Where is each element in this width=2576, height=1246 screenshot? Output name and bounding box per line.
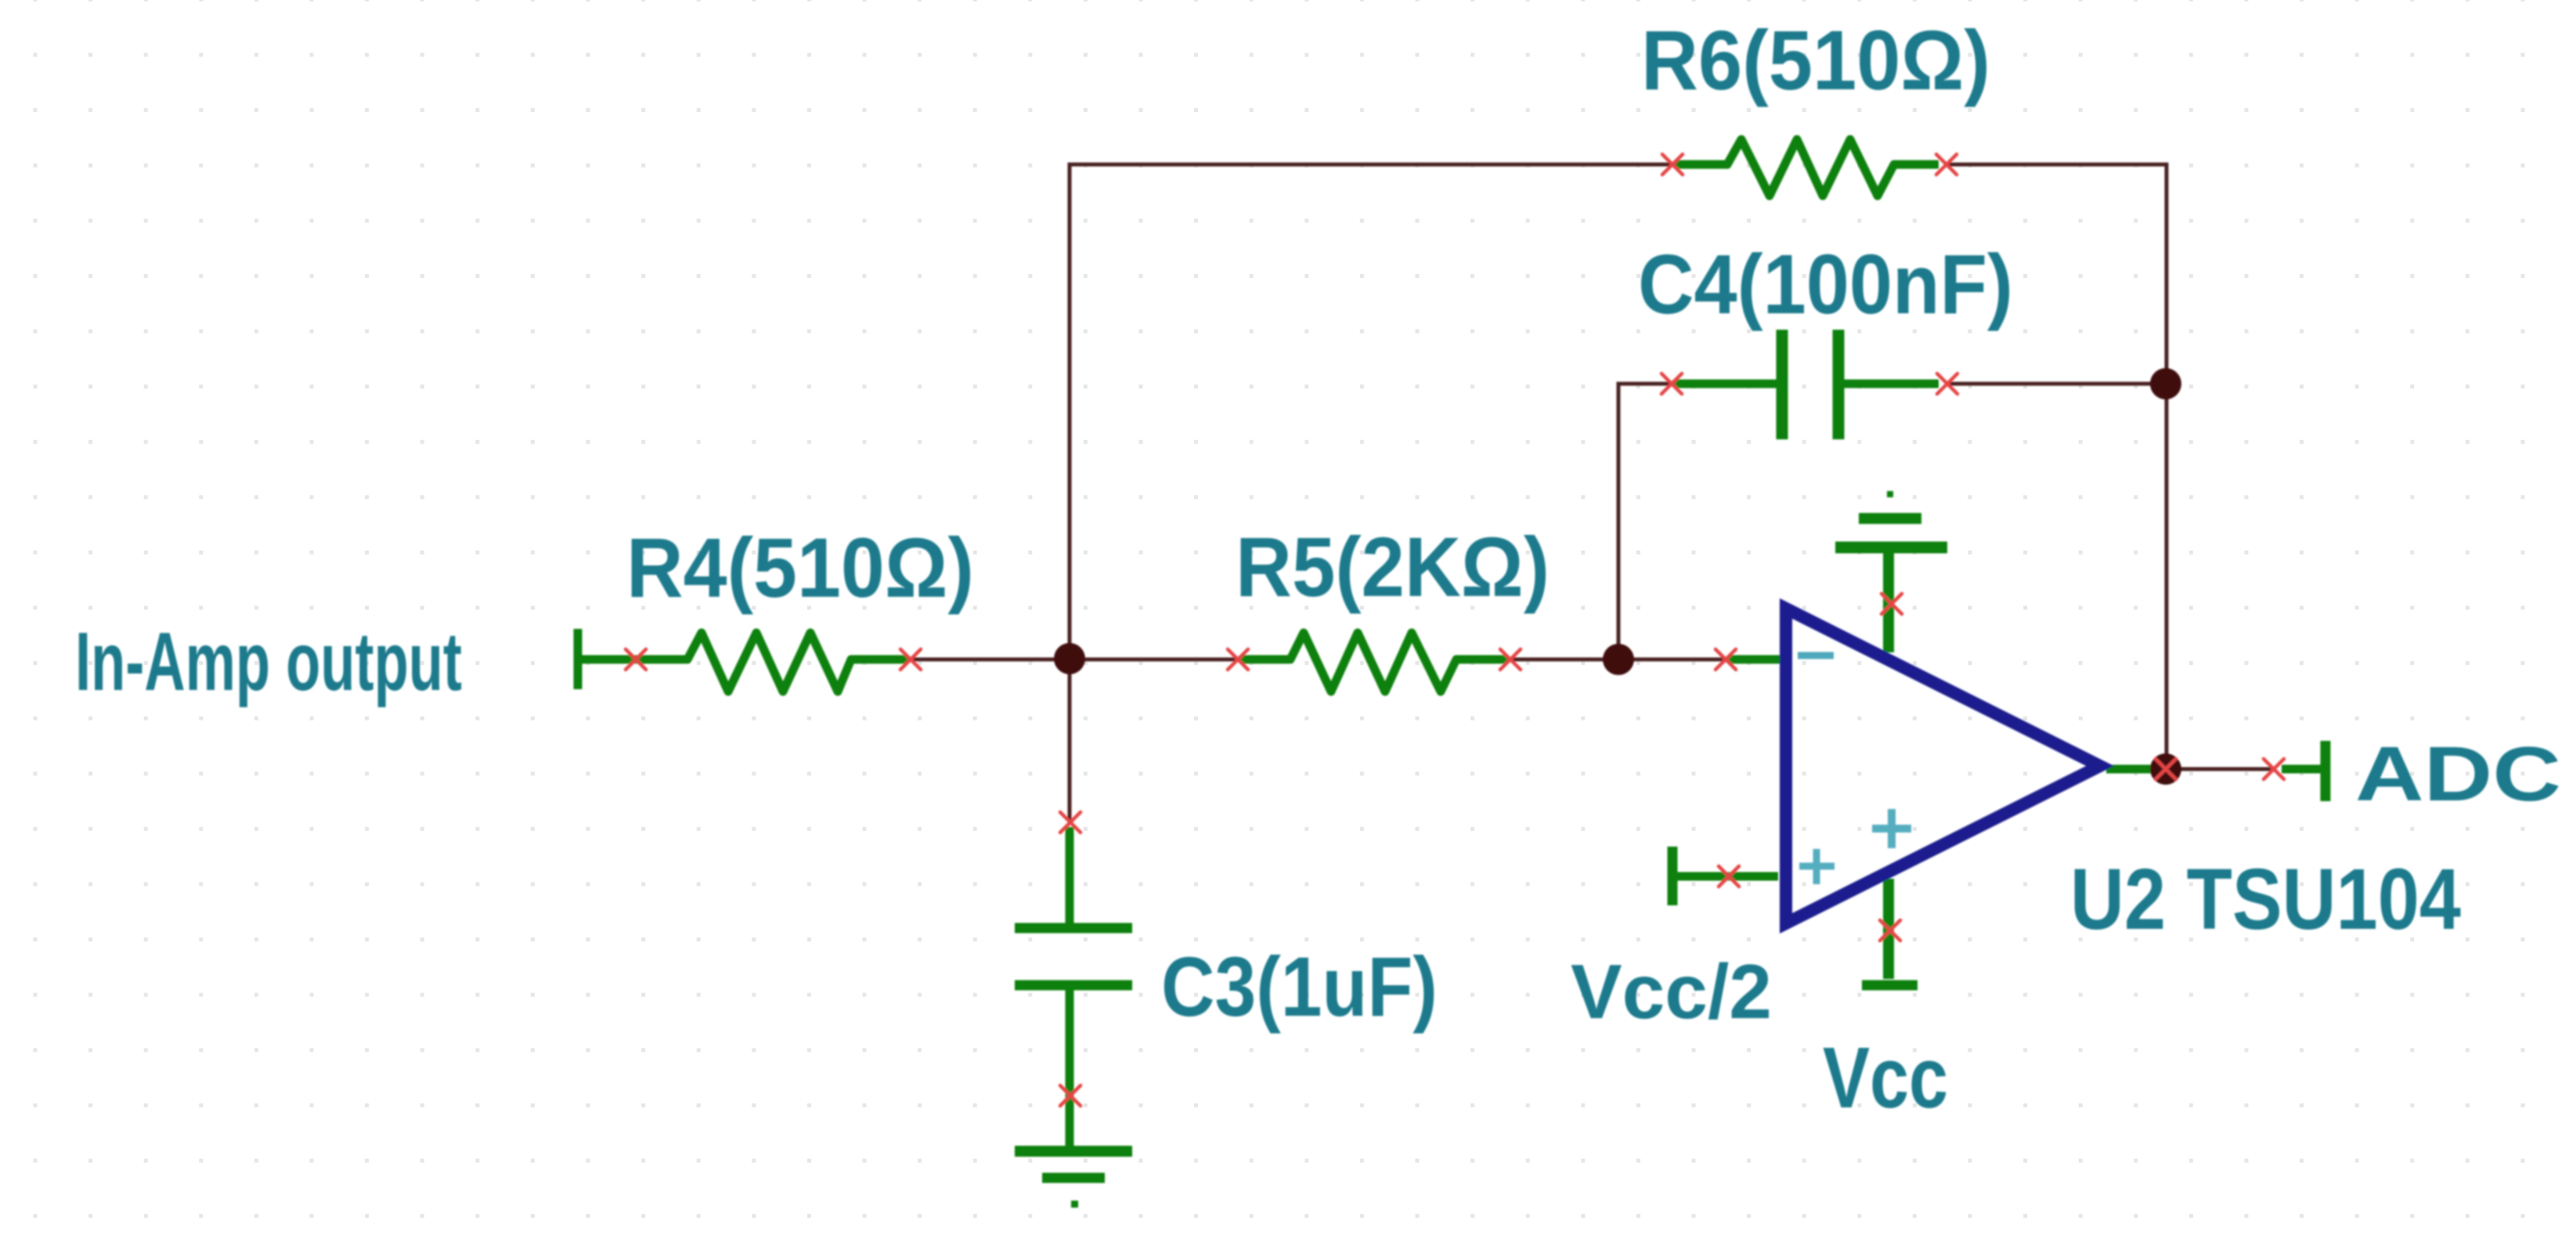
- pin marker x op-amp top power: [1881, 594, 1902, 614]
- svg-text:C4(100nF): C4(100nF): [1638, 237, 2013, 331]
- pin marker x R6 left: [1662, 154, 1683, 175]
- wire node A to R5 left: [1070, 658, 1238, 662]
- op-amp output lead: [2106, 765, 2155, 774]
- wire node B to op-amp inverting pin: [1618, 658, 1726, 662]
- resistor R5: [1240, 633, 1508, 692]
- svg-text:R4(510Ω): R4(510Ω): [626, 520, 974, 615]
- junction output node: [2150, 753, 2181, 785]
- pin marker x R4 left: [626, 649, 646, 670]
- pin marker x R6 right: [1936, 154, 1957, 175]
- pin marker x op-amp bottom power: [1880, 920, 1900, 941]
- svg-text:C3(1uF): C3(1uF): [1161, 939, 1438, 1034]
- svg-text:R6(510Ω): R6(510Ω): [1641, 13, 1990, 107]
- pin marker x C4 left: [1661, 374, 1682, 394]
- resistor R6: [1675, 139, 1939, 196]
- power symbol above op-amp (Vee bar): [1835, 518, 1947, 652]
- op-amp plus sign (input): [1799, 849, 1835, 884]
- port ADC terminal: [2282, 741, 2325, 801]
- pin marker x C4 right: [1937, 374, 1957, 394]
- pin marker x R4 right: [900, 649, 921, 670]
- wire C4 right to node C: [1947, 382, 2166, 386]
- pin marker x on output junction: [2156, 759, 2176, 779]
- pin marker x op-amp minus: [1716, 649, 1736, 670]
- svg-text:In-Amp output: In-Amp output: [75, 616, 462, 708]
- pin marker x R5 left: [1228, 649, 1248, 670]
- op-amp minus sign: [1798, 652, 1834, 659]
- junction node C (C4 right / rail): [2150, 368, 2181, 399]
- svg-text:Vcc/2: Vcc/2: [1571, 948, 1772, 1035]
- op-amp U2 triangle: [1786, 609, 2100, 923]
- op-amp inverting input lead: [1728, 656, 1780, 664]
- svg-text:ADC: ADC: [2355, 731, 2561, 817]
- svg-text:U2 TSU104: U2 TSU104: [2070, 851, 2461, 948]
- pin marker x C3 bottom: [1060, 1085, 1081, 1106]
- wire feedback top: from node A up-left corner to R6 left: [1070, 164, 1672, 659]
- resistor R4: [582, 633, 908, 692]
- wire output node to ADC pin: [2166, 767, 2274, 771]
- ground below C3: [1015, 1151, 1132, 1178]
- svg-text:Vcc: Vcc: [1823, 1030, 1948, 1126]
- wire node B up to C4 left corner: [1618, 384, 1672, 659]
- pin marker x R5 right: [1500, 649, 1521, 670]
- capacitor C4: [1674, 330, 1939, 439]
- capacitor C3: [1015, 827, 1132, 1146]
- junction node A (R4/R5/C3): [1054, 643, 1085, 674]
- port In-Amp output terminal: [574, 629, 583, 689]
- pin marker x op-amp plus input: [1719, 866, 1739, 887]
- svg-text:R5(2KΩ): R5(2KΩ): [1236, 519, 1550, 614]
- wire node A down to C3 top pin: [1068, 659, 1072, 822]
- op-amp plus sign (supply): [1872, 809, 1911, 848]
- power Vcc stem below op-amp: [1862, 879, 1918, 985]
- wire R4 right lead to node A: [911, 658, 1070, 662]
- wire R6 right to right vertical rail down to output node: [1946, 164, 2167, 769]
- port Vcc/2 terminal: [1672, 847, 1778, 905]
- wire R5 right to node B (inverting input node): [1510, 658, 1618, 662]
- junction node B (inverting input): [1603, 644, 1634, 675]
- pin marker x output to ADC: [2264, 759, 2284, 779]
- pin marker x C3 top: [1060, 812, 1081, 832]
